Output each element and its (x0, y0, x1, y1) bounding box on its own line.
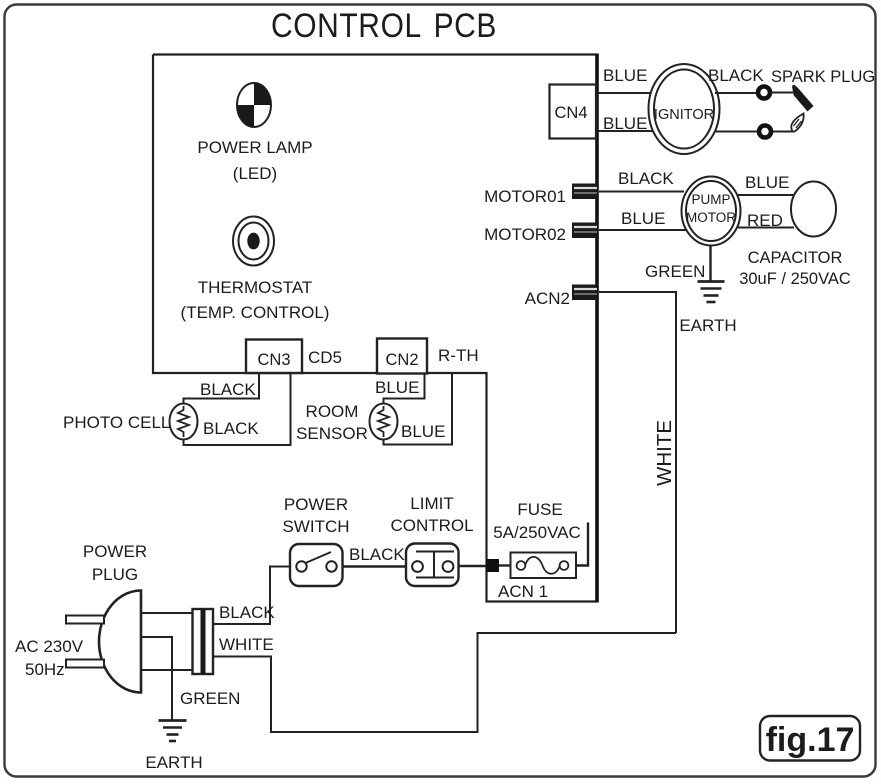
wire (ACN1 to fuse) (499, 564, 511, 566)
svg-text:BLUE: BLUE (375, 378, 419, 397)
room sensor (296, 402, 397, 443)
wire RED (pump motor to capacitor, bottom) (738, 227, 794, 229)
svg-text:CAPACITOR: CAPACITOR (748, 249, 843, 267)
svg-text:THERMOSTAT: THERMOSTAT (198, 278, 313, 297)
wire (plug to connector, bottom) (141, 669, 192, 671)
svg-text:IGNITOR: IGNITOR (654, 107, 714, 123)
svg-text:LIMIT: LIMIT (410, 494, 453, 513)
svg-text:ROOM: ROOM (306, 402, 359, 421)
svg-text:POWER: POWER (284, 495, 348, 514)
svg-text:50Hz: 50Hz (25, 660, 65, 679)
svg-text:BLUE: BLUE (603, 114, 647, 133)
svg-text:EARTH: EARTH (145, 753, 202, 772)
svg-text:BLACK: BLACK (618, 169, 674, 188)
svg-text:BLUE: BLUE (401, 422, 445, 441)
svg-text:30uF / 250VAC: 30uF / 250VAC (739, 270, 851, 288)
wire BLUE (room sensor to R-TH terminal) (384, 374, 453, 445)
wire BLUE (CN4 to ignitor, bottom) (598, 130, 656, 132)
wire BLACK (CN3 left pin to photo cell) (184, 374, 260, 404)
control PCB board outline (153, 55, 597, 602)
figure label fig.17 (760, 716, 860, 761)
photo cell (63, 404, 198, 440)
spark plug tip (outlined nib) (791, 114, 803, 132)
wire PCB right edge (thick) (595, 54, 599, 603)
connector CN2 (377, 339, 427, 374)
wire GREEN (pump motor to earth) (709, 246, 711, 282)
svg-text:SPARK PLUG: SPARK PLUG (771, 68, 875, 86)
svg-text:MOTOR02: MOTOR02 (484, 225, 566, 244)
svg-text:BLACK: BLACK (349, 545, 405, 564)
power lamp LED (197, 83, 312, 183)
svg-text:EARTH: EARTH (679, 316, 736, 335)
svg-text:CONTROL PCB: CONTROL PCB (271, 6, 497, 44)
svg-text:BLUE: BLUE (621, 209, 665, 228)
wire BLUE (CN2 to room sensor) (384, 374, 425, 404)
svg-text:GREEN: GREEN (180, 689, 240, 708)
svg-text:WHITE: WHITE (653, 420, 676, 486)
wire (plug to connector, top) (141, 612, 192, 614)
svg-text:BLACK: BLACK (708, 66, 764, 85)
svg-text:fig.17: fig.17 (766, 721, 855, 759)
wire BLACK (power switch to limit control) (343, 565, 407, 567)
connector MOTOR02 (484, 223, 597, 245)
ground EARTH (pump motor) (679, 282, 736, 336)
svg-text:(LED): (LED) (233, 164, 277, 183)
svg-text:WHITE: WHITE (219, 635, 274, 654)
svg-text:SENSOR: SENSOR (296, 424, 368, 443)
terminal (top) (758, 87, 770, 99)
terminal (bottom) (759, 126, 771, 138)
svg-text:CN3: CN3 (257, 351, 290, 369)
power plug (15, 542, 147, 693)
svg-text:FUSE: FUSE (517, 500, 562, 519)
svg-text:RED: RED (747, 211, 783, 230)
svg-text:BLUE: BLUE (745, 173, 789, 192)
wire BLUE (MOTOR02 to pump motor) (599, 229, 689, 231)
wire ignitor to spark plug terminal (top) (715, 92, 757, 94)
capacitor 30uF/250VAC (739, 182, 851, 289)
svg-text:BLACK: BLACK (203, 419, 259, 438)
wire GREEN (plug to earth) (141, 637, 172, 720)
svg-text:CN4: CN4 (554, 104, 587, 122)
ignitor (649, 64, 720, 154)
wire ignitor to spark plug terminal (bottom) (715, 131, 795, 133)
svg-text:PUMP: PUMP (691, 192, 730, 207)
spark plug electrode bar (792, 85, 814, 112)
wire BLACK (photo cell to CN3 right pin) (184, 374, 291, 445)
svg-text:GREEN: GREEN (645, 262, 705, 281)
wire BLUE (pump motor to capacitor, top) (738, 194, 794, 196)
svg-text:(TEMP. CONTROL): (TEMP. CONTROL) (181, 303, 330, 322)
svg-text:CN2: CN2 (385, 351, 418, 369)
svg-text:CD5: CD5 (308, 348, 342, 367)
connector CN4 (550, 85, 597, 139)
svg-text:MOTOR01: MOTOR01 (484, 187, 566, 206)
svg-text:CONTROL: CONTROL (390, 516, 473, 535)
svg-text:PHOTO CELL: PHOTO CELL (63, 413, 170, 432)
svg-text:BLACK: BLACK (219, 603, 275, 622)
fuse 5A/250VAC (493, 500, 581, 578)
svg-text:MOTOR: MOTOR (686, 210, 736, 225)
svg-text:POWER LAMP: POWER LAMP (197, 138, 312, 157)
wire BLACK (connector to power switch) (213, 567, 290, 625)
ground EARTH (power plug) (145, 721, 202, 773)
power switch (282, 495, 349, 586)
wire WHITE (connector to ACN/right rail) (213, 633, 676, 732)
connector ACN1 (black square) (486, 559, 499, 572)
svg-text:BLUE: BLUE (603, 66, 647, 85)
wire (limit control to ACN1) (459, 565, 488, 567)
svg-text:5A/250VAC: 5A/250VAC (493, 523, 581, 542)
limit control (390, 494, 473, 586)
svg-text:PLUG: PLUG (92, 565, 138, 584)
svg-text:ACN2: ACN2 (525, 289, 570, 308)
svg-text:SWITCH: SWITCH (282, 517, 349, 536)
connector ACN2 (525, 285, 597, 309)
wire WHITE (ACN2 to right rail) (599, 292, 676, 633)
connector CN3 (246, 340, 302, 374)
connector MOTOR01 (484, 184, 597, 207)
wire BLUE (CN4 to ignitor, top) (598, 92, 653, 94)
svg-text:POWER: POWER (83, 542, 147, 561)
plug connector (193, 609, 214, 674)
svg-text:ACN 1: ACN 1 (498, 582, 548, 601)
svg-text:R-TH: R-TH (438, 346, 479, 365)
svg-text:BLACK: BLACK (200, 380, 256, 399)
thermostat (temp control) (181, 217, 330, 323)
pump motor (682, 177, 741, 246)
svg-text:AC 230V: AC 230V (15, 637, 84, 656)
wire BLACK (MOTOR01 to pump motor) (599, 191, 684, 193)
wire (fuse to PCB stub) (576, 523, 588, 566)
